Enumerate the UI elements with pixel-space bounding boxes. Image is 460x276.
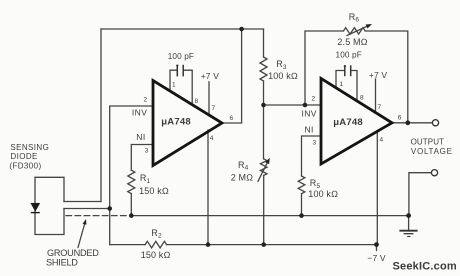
svg-text:100 kΩ: 100 kΩ (268, 71, 298, 81)
svg-text:OUTPUT: OUTPUT (411, 138, 445, 147)
wire R3 bottom to node (263, 81, 265, 159)
svg-text:INV: INV (132, 107, 147, 117)
wire NI input lead op-amp1 pin3 (131, 145, 153, 171)
sensing diode D1 (31, 203, 40, 212)
svg-text:2.5 MΩ: 2.5 MΩ (337, 37, 367, 47)
resistor R3 zigzag (260, 57, 267, 81)
resistor R1 zigzag (128, 170, 135, 193)
svg-text:(FD300): (FD300) (9, 162, 41, 171)
svg-text:SHIELD: SHIELD (46, 257, 78, 267)
wire op-amp2 output lead pin6 (392, 122, 432, 124)
R6 arrowhead (366, 24, 372, 29)
svg-text:+7 V: +7 V (201, 71, 220, 81)
op-amp2 pin1 lead and cap left lead (336, 71, 345, 89)
svg-text:100 kΩ: 100 kΩ (308, 189, 338, 199)
svg-text:+7 V: +7 V (369, 70, 388, 80)
output terminal upper (432, 120, 438, 126)
junction node R1 bottom / ground line (129, 213, 134, 218)
svg-text:7: 7 (212, 105, 216, 112)
svg-text:R6: R6 (349, 12, 360, 24)
wire R3 top lead (263, 29, 265, 57)
op-amp U2 triangle (321, 78, 392, 164)
svg-text:R1: R1 (140, 173, 151, 185)
wire vertical left feedback to shield box (100, 29, 102, 202)
wire INV input lead op-amp1 pin2 (110, 106, 153, 245)
svg-text:2: 2 (144, 97, 148, 104)
svg-text:4: 4 (380, 137, 384, 144)
capacitor C1 plates (op-amp1) (176, 65, 183, 77)
svg-text:NI: NI (136, 132, 145, 142)
svg-text:3: 3 (313, 140, 317, 147)
junction node INV2 / feedback (303, 103, 308, 108)
svg-text:R4: R4 (238, 160, 249, 172)
svg-text:R2: R2 (151, 228, 162, 240)
op-amp U1 triangle (153, 81, 222, 166)
op-amp2 +7V lead pin7 (375, 79, 377, 113)
svg-text:6: 6 (230, 115, 234, 122)
wire -7V stub (376, 245, 378, 251)
wire ground stub (408, 216, 410, 230)
svg-text:7: 7 (378, 104, 382, 111)
svg-text:2: 2 (312, 96, 316, 103)
resistor R2 zigzag (145, 241, 166, 248)
junction node R5 bottom / ground line (299, 213, 304, 218)
svg-text:μA748: μA748 (333, 117, 363, 128)
svg-text:−7 V: −7 V (367, 253, 386, 263)
grounded shield box outline (35, 177, 64, 234)
svg-text:2 MΩ: 2 MΩ (231, 172, 254, 182)
output terminal lower (431, 170, 437, 176)
op-amp2 cap right lead pin8 (351, 71, 357, 102)
svg-text:100 pF: 100 pF (168, 52, 194, 61)
resistor R6 zigzag (344, 28, 366, 34)
wire -7V rail right segment (167, 244, 377, 246)
svg-text:6: 6 (398, 115, 402, 122)
wire lower output terminal to ground (409, 173, 431, 216)
wire R4 bottom to -7V rail (263, 175, 265, 244)
wire shield box slot lower exit (64, 208, 110, 210)
svg-text:150 kΩ: 150 kΩ (141, 250, 171, 260)
svg-text:DIODE: DIODE (10, 152, 37, 161)
wire R1 bottom to ground line (130, 194, 132, 216)
op-amp1 pin4 lead (207, 130, 209, 245)
svg-text:100 pF: 100 pF (336, 51, 362, 60)
junction node top line / op1 output (239, 27, 244, 32)
wire ground line horizontal (131, 215, 408, 217)
svg-text:NI: NI (305, 124, 314, 134)
op-amp2 pin4 lead (376, 131, 378, 245)
junction node op1 pin4 / -7V rail (206, 242, 211, 247)
wire op-amp1 output lead pin6 (222, 29, 242, 123)
wire R6 right to op-amp2 output (365, 31, 408, 123)
svg-text:R3: R3 (276, 59, 287, 71)
leader arrowhead (83, 219, 87, 225)
junction node R4 / -7V rail (261, 242, 266, 247)
junction node ground line / terminal wire (406, 213, 411, 218)
svg-text:8: 8 (195, 98, 199, 105)
svg-text:3: 3 (145, 147, 149, 154)
ground symbol (399, 231, 417, 237)
capacitor C2 plates (op-amp2) (344, 65, 351, 76)
junction node R3 bottom / INV2 (261, 103, 266, 108)
op-amp1 cap right lead pin8 (183, 70, 192, 103)
resistor R5 zigzag (298, 176, 305, 194)
wire INV lead op-amp2 from R3/R4 node (264, 104, 321, 106)
wire NI lead op-amp2 pin3 (302, 136, 321, 176)
svg-text:1: 1 (340, 81, 344, 88)
op-amp1 pin1 lead and cap left lead (170, 70, 177, 90)
wire shield box slot upper exit (64, 201, 101, 203)
junction node op2 pin4 / -7V rail (374, 242, 379, 247)
svg-text:VOLTAGE: VOLTAGE (411, 147, 453, 156)
wire feedback vertical op-amp2 (305, 31, 344, 105)
R4 arrowhead (265, 158, 270, 164)
R6 wiper arrow (347, 26, 369, 36)
svg-text:1: 1 (172, 81, 176, 88)
wire grounded shield dashed line (66, 215, 129, 217)
svg-text:SENSING: SENSING (10, 143, 49, 152)
svg-text:8: 8 (360, 95, 364, 102)
wire R5 bottom to ground line (301, 194, 303, 216)
svg-text:4: 4 (210, 135, 214, 142)
wire -7V rail left segment (110, 244, 146, 246)
svg-text:INV: INV (302, 109, 317, 119)
op-amp1 +7V lead pin7 (208, 82, 210, 114)
junction node op2 output / R6 (405, 120, 410, 125)
svg-text:μA748: μA748 (161, 117, 191, 128)
wire feedback top line op-amp1 (101, 28, 264, 30)
svg-text:SeekIC.com: SeekIC.com (393, 261, 457, 273)
resistor R4 zigzag (260, 159, 267, 176)
R4 wiper arrow (258, 160, 269, 181)
junction node shield slot / INV1 vertical (107, 206, 112, 211)
grounded shield leader line (78, 223, 85, 248)
svg-text:150 kΩ: 150 kΩ (139, 186, 169, 196)
